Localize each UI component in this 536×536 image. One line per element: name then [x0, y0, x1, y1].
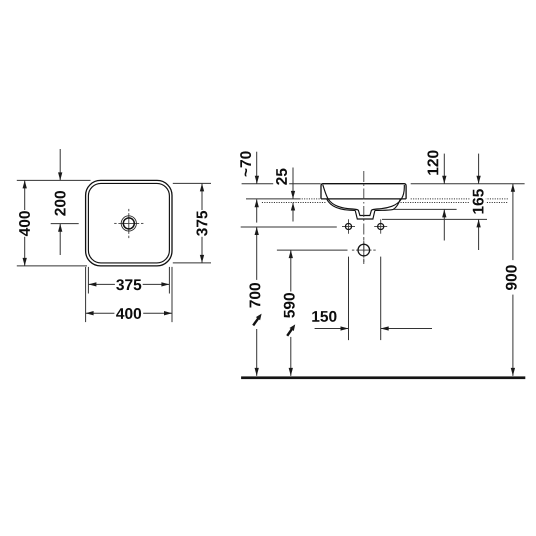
counter bottom dotted right [401, 202, 509, 204]
extension line fixing hole left [348, 257, 350, 341]
arrow down 590 [289, 368, 293, 376]
arrow left 375 bottom [88, 282, 96, 286]
arrow down 375 right [200, 255, 204, 263]
fixing hole left circle [345, 223, 351, 229]
extension line fixing-hole level left [241, 226, 337, 228]
label 165 [470, 188, 486, 214]
counter top dotted left [302, 198, 321, 200]
dimension 200 upper shaft [59, 149, 61, 180]
dimension 375 bottom line [88, 283, 169, 285]
basin base line [321, 198, 406, 200]
arrow up ~70 lower with stub shaft [256, 199, 258, 222]
label 400 left [16, 210, 32, 237]
basin top extension line right [411, 183, 525, 185]
label 25 [273, 168, 289, 186]
basin top extension line left [242, 183, 321, 185]
drain inner circle [123, 218, 134, 229]
extension line 120 level [394, 208, 457, 210]
dim 165 upper shaft [478, 154, 480, 184]
extension line bottom inner-right [168, 267, 170, 294]
fixing hole right cross [374, 226, 387, 228]
floor line [241, 376, 525, 379]
dimension 400 left shaft [24, 180, 26, 266]
dimension 375 right shaft [201, 183, 203, 263]
basin rim box outline [321, 184, 406, 199]
arrow up 375 right [200, 183, 204, 191]
arrow right 375 bottom [161, 282, 169, 286]
drain centre cross horizontal [114, 222, 116, 224]
arrow up 590 [289, 250, 293, 258]
break mark 590 [287, 328, 292, 336]
bowl outer underside right [375, 199, 401, 211]
arrow up 700 [255, 227, 259, 235]
label 375 right [194, 210, 210, 237]
label ~70 [240, 151, 251, 176]
bowl inner surface section [323, 185, 405, 216]
basin outer rim top view [86, 180, 172, 266]
drain trap cross [352, 249, 354, 251]
arrow right 400 bottom [164, 311, 172, 315]
label 590 [282, 292, 299, 337]
drain trap circle [358, 244, 370, 256]
arrow down 165 [476, 176, 480, 184]
arrow right 150 [341, 326, 349, 330]
dim 25 upper shaft [292, 168, 294, 199]
break mark 700 [253, 317, 259, 325]
tick at basin centre for 200 [51, 223, 79, 225]
extension line fixing hole right [380, 257, 382, 341]
arrow up 200 [58, 224, 62, 232]
extension line top-left [17, 179, 91, 181]
dim 150 left segment [315, 328, 349, 330]
extension line drain level [277, 249, 348, 251]
extension line right top [173, 182, 211, 184]
arrow up 400 left [23, 180, 27, 188]
centre line of basin side view [363, 171, 365, 264]
arrow left 400 bottom [86, 311, 94, 315]
basin inner rim top view [88, 183, 169, 263]
drain centre cross vertical [128, 209, 130, 211]
drain fitting outer [355, 210, 375, 219]
bowl outer underside left [327, 199, 356, 211]
arrow left 150 [381, 326, 389, 330]
label 120 [427, 151, 438, 175]
dim 25 lower shaft [292, 203, 294, 222]
counter top dotted right [411, 198, 508, 200]
arrow up 25 [291, 203, 295, 211]
arrow down 25 [291, 191, 295, 199]
label 375 bottom [115, 277, 143, 292]
fixing hole left cross [342, 226, 355, 228]
label 150 [312, 311, 336, 322]
label 700 [248, 280, 265, 329]
basin body white fill [321, 184, 406, 219]
counter bottom dotted left [262, 202, 327, 204]
arrow down 700 [255, 368, 259, 376]
fixing hole right circle [378, 223, 384, 229]
extension line bottom-left [17, 265, 87, 267]
extension line right bottom [173, 262, 211, 264]
dim 150 right segment [381, 328, 432, 330]
label 400 bottom [114, 306, 143, 321]
arrow down ~70 [255, 176, 259, 184]
drain outer circle [121, 216, 136, 231]
extension line 165 level [382, 218, 487, 220]
arrow down 400 left [23, 258, 27, 266]
label 900 [504, 260, 521, 295]
arrow up 900 [511, 184, 515, 192]
dimension 400 bottom line [86, 312, 172, 314]
dim 165 lower shaft [478, 219, 480, 250]
dim 900 shaft [512, 184, 514, 376]
extension line bottom outer-right [171, 267, 173, 322]
dim 700 shaft [256, 227, 258, 376]
dimension 200 lower shaft [59, 224, 61, 255]
label 200 [55, 191, 66, 216]
arrow down 900 [511, 368, 515, 376]
extension line bottom inner-left [87, 267, 89, 294]
dim 590 shaft [290, 250, 292, 376]
arrow up 120 [442, 209, 446, 217]
counter top solid line left [246, 198, 301, 200]
arrow down 120 [442, 176, 446, 184]
dim ~70 shaft [256, 152, 258, 184]
dim 120 upper shaft [443, 154, 445, 184]
arrow down 200 [58, 172, 62, 180]
arrow up 165 [476, 219, 480, 227]
dim 120 lower shaft [443, 209, 445, 240]
extension line bottom outer-left [85, 267, 87, 322]
